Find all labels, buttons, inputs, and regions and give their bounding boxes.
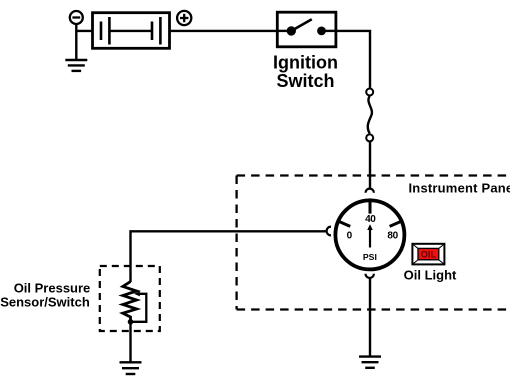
svg-text:PSI: PSI: [363, 252, 377, 262]
battery B1: [93, 13, 170, 49]
resistor (sensor element): [123, 282, 137, 323]
connector J1: [366, 89, 373, 96]
svg-text:40: 40: [365, 214, 376, 225]
svg-text:80: 80: [387, 230, 398, 241]
wire battery positive to ignition switch: [170, 30, 277, 32]
oil pressure sensor/switch enclosure: [100, 266, 160, 331]
wire connector to gauge top terminal: [369, 142, 371, 189]
ground (battery): [65, 60, 87, 71]
svg-text:OIL: OIL: [421, 250, 437, 260]
label: Ignition Switch: [273, 53, 338, 92]
wiper arm of sensor: [131, 291, 147, 322]
wire gauge bottom terminal to ground: [369, 278, 371, 356]
svg-text:Oil Pressure: Oil Pressure: [14, 281, 91, 296]
oil light DS1 (indicator lamp): [412, 244, 444, 265]
battery positive terminal: [177, 11, 191, 25]
gauge terminal left: [327, 227, 331, 236]
wire squiggle between connectors: [368, 96, 372, 134]
label: Oil Pressure Sensor/Switch: [0, 281, 90, 310]
oil pressure gauge M1: [335, 198, 404, 269]
svg-text:Sensor/Switch: Sensor/Switch: [0, 294, 90, 309]
battery negative terminal: [70, 11, 83, 24]
svg-text:Oil Light: Oil Light: [404, 268, 457, 283]
ignition switch S1: [277, 12, 336, 47]
ground (gauge): [359, 357, 381, 368]
junction node: [128, 319, 134, 325]
wire sensor to ground: [129, 322, 131, 363]
connector J2: [366, 134, 373, 141]
wire ignition switch to connector: [336, 31, 370, 88]
wire battery negative to ground: [76, 24, 92, 60]
gauge terminal bottom: [366, 274, 374, 278]
wire gauge left terminal to sensor: [131, 231, 328, 282]
svg-text:Ignition: Ignition: [273, 53, 338, 73]
instrument panel dashed enclosure: [237, 176, 510, 310]
svg-text:Switch: Switch: [276, 71, 334, 91]
gauge terminal top: [366, 189, 374, 193]
ground (sensor): [120, 362, 142, 374]
svg-text:0: 0: [347, 230, 353, 241]
svg-text:Instrument Panel: Instrument Panel: [409, 180, 510, 195]
